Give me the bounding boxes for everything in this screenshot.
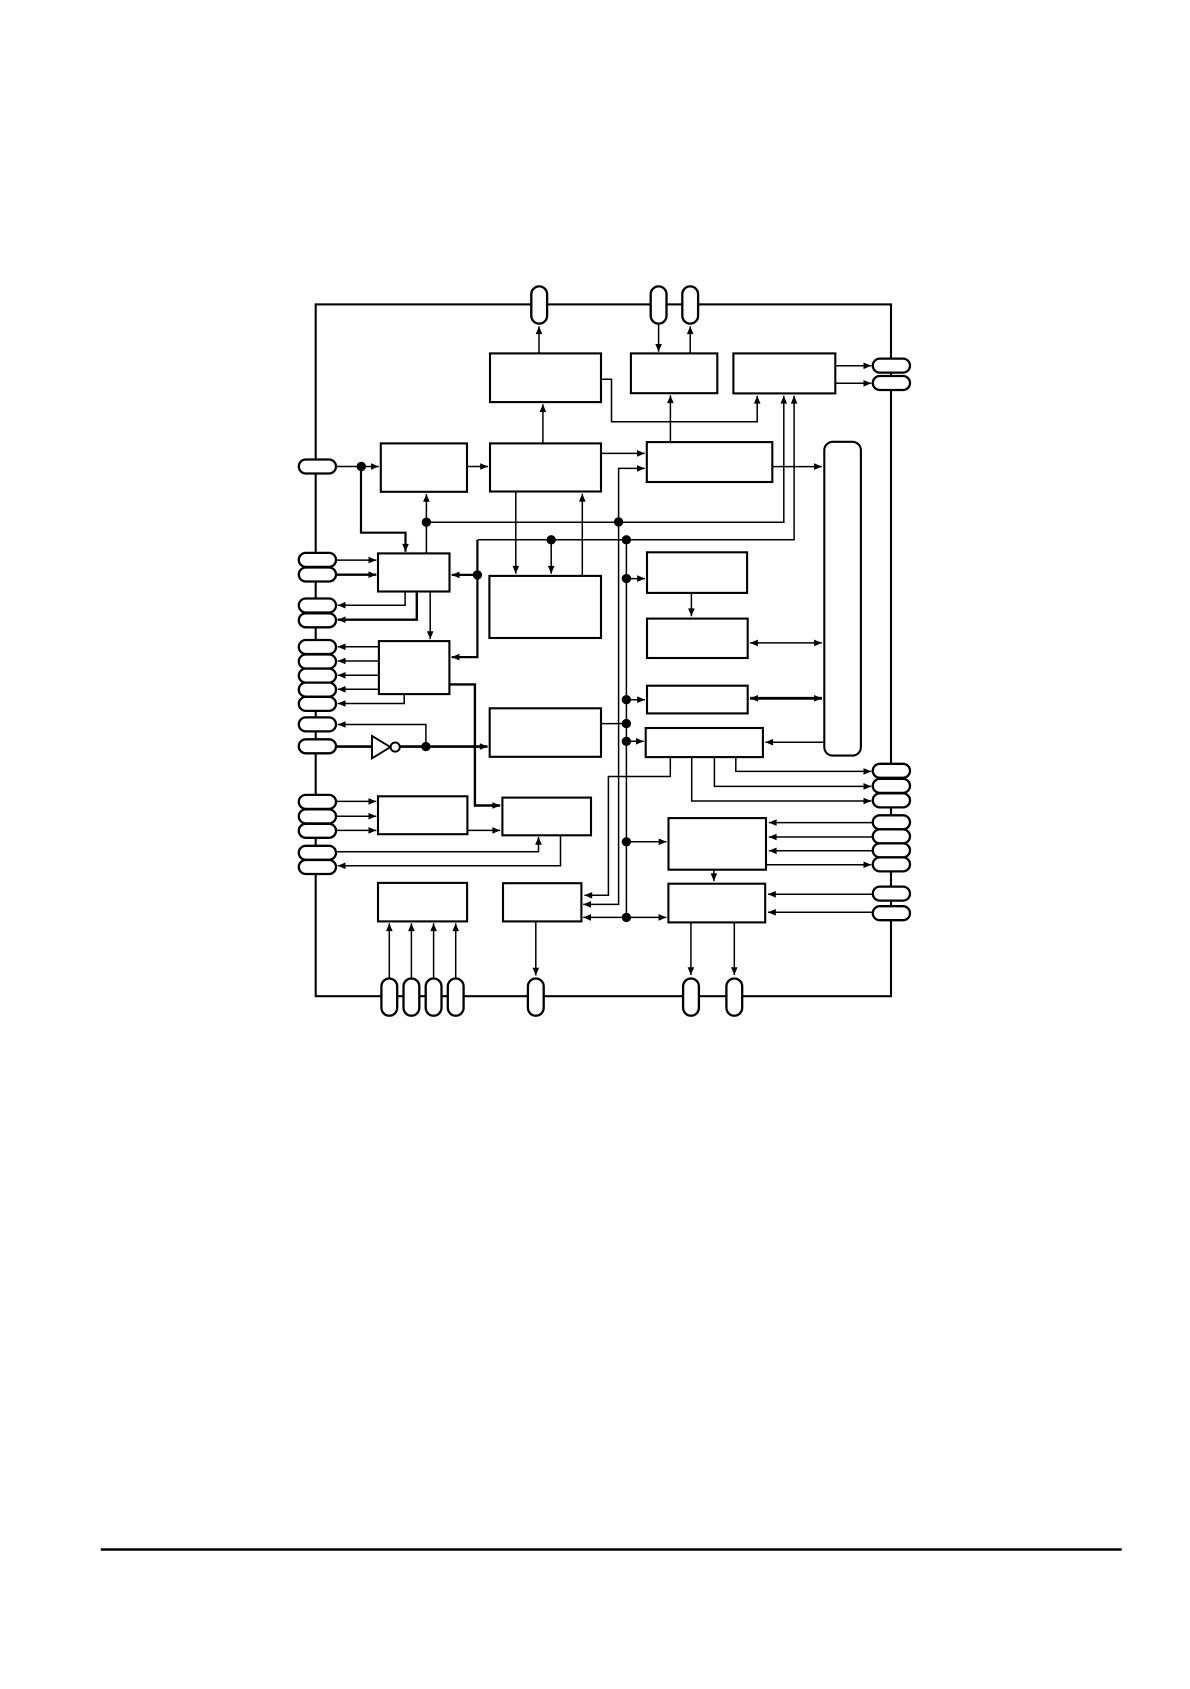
wire U13 clock out tap xyxy=(601,723,626,725)
wire pad to U18 b xyxy=(408,923,415,978)
wire footer rule xyxy=(101,1548,1122,1551)
wire net2 vertical to U6 and U19 xyxy=(583,465,645,908)
block U14 xyxy=(646,728,763,757)
pad L7 xyxy=(299,655,336,669)
wire U7 to U4 xyxy=(423,494,430,553)
pad L14 xyxy=(299,809,336,823)
wire pad to U20 a xyxy=(768,891,873,898)
block U4 xyxy=(381,443,467,491)
junction net3 h xyxy=(622,837,631,846)
wire U11 to U16 xyxy=(449,684,500,808)
junction net2 a xyxy=(422,518,431,527)
pad L9 xyxy=(299,683,336,697)
wire net3 branch to U17 xyxy=(626,839,666,846)
pad B7 xyxy=(726,979,742,1016)
pad L15 xyxy=(299,824,336,838)
wire inverter G1 to U13 xyxy=(400,743,488,750)
wire pad to U15 a xyxy=(336,798,376,805)
wire U5 to U1 xyxy=(540,404,547,443)
wire pad E to U4 xyxy=(336,463,379,470)
wire net3 branch to U14 xyxy=(626,738,643,745)
pad R10 xyxy=(873,887,910,901)
pad XOUT xyxy=(682,286,698,323)
wire U7 to U11 xyxy=(427,592,434,640)
wire U1 to pad CLKOUT xyxy=(536,326,543,353)
wire U11 to pad c xyxy=(338,672,379,679)
wire U11 to pad b xyxy=(338,658,379,665)
pad XIN xyxy=(651,286,667,323)
junction net3 f xyxy=(622,719,631,728)
pad L8 xyxy=(299,669,336,683)
block U9 xyxy=(647,552,747,593)
wire U1 out elbow to U3 xyxy=(601,379,761,422)
block U5 xyxy=(490,443,601,491)
pad B1 xyxy=(381,979,397,1016)
pad R8 xyxy=(873,843,910,857)
pad L10 xyxy=(299,697,336,711)
block U8 xyxy=(489,576,601,638)
wire pad to U20 b xyxy=(768,909,873,916)
pad R3 xyxy=(873,764,910,778)
wire net2 horizontal to U3 xyxy=(426,396,787,522)
wire U6 to bus xyxy=(772,463,822,470)
pad L5 xyxy=(299,613,336,627)
junction net3 g xyxy=(622,737,631,746)
junction net3 i xyxy=(622,913,631,922)
pad L13 xyxy=(299,795,336,809)
pad L4 xyxy=(299,599,336,613)
wire U11 to pad d xyxy=(338,686,379,693)
wire pad to U7 b xyxy=(336,571,376,578)
junction net2 b xyxy=(614,517,623,526)
block U6 xyxy=(647,442,773,482)
pad B6 xyxy=(683,979,699,1016)
junction net3 c xyxy=(473,570,482,579)
pad R9 xyxy=(873,857,910,871)
block U13 xyxy=(490,708,601,757)
wire net3 left branch to U11 xyxy=(452,540,478,661)
wire U14 to pad r3 xyxy=(692,757,872,804)
wire pad to U15 b xyxy=(336,813,376,820)
wire U12 bus bidir xyxy=(750,695,822,702)
wire pad to U7 a xyxy=(336,557,376,564)
block U17 xyxy=(669,818,767,870)
wire U15 to U16 xyxy=(467,827,500,834)
wire U3 to pad TXD xyxy=(835,380,871,387)
wire net3 branch to U9 xyxy=(626,575,645,582)
wire U11 to pad a xyxy=(338,644,379,651)
pad L12 xyxy=(299,739,336,753)
wire U2 to pad XOUT xyxy=(687,326,694,353)
wire U10 bus bidir xyxy=(750,640,822,647)
block U10 xyxy=(647,619,748,658)
pad B2 xyxy=(404,979,420,1016)
pad L2 xyxy=(299,553,336,567)
block U15 xyxy=(378,796,467,834)
wire U17 to U20 xyxy=(711,870,718,882)
pad L11 xyxy=(299,717,336,731)
pad R6 xyxy=(873,815,910,829)
wire U17 to pad xyxy=(766,862,871,869)
pad CLKOUT xyxy=(531,286,547,323)
junction net3 b xyxy=(622,535,631,544)
wire U19 to pad xyxy=(533,921,540,975)
wire U20 to pad b xyxy=(731,922,738,975)
wire net3 branch to U7 xyxy=(452,572,478,579)
wire U20 to pad a xyxy=(688,922,695,975)
wire pad to U15 c xyxy=(336,827,376,834)
pad E xyxy=(299,460,336,474)
pad B3 xyxy=(426,979,442,1016)
wire pad to inverter G1 xyxy=(336,745,373,748)
wire pad to U17 a xyxy=(769,819,873,826)
wire U6 to U2 xyxy=(667,395,674,442)
wire pad to U18 c xyxy=(430,923,437,978)
pad L17 xyxy=(299,860,336,874)
wire pad to U17 b xyxy=(769,834,873,841)
wire node E to U7 xyxy=(361,467,409,552)
wire net3 branch to U12 xyxy=(626,696,645,703)
junction net3 d xyxy=(622,574,631,583)
block U1 xyxy=(490,353,601,402)
junction net3 e xyxy=(622,695,631,704)
junction inverter out xyxy=(421,742,430,751)
wire pad to U18 d xyxy=(452,923,459,978)
block U18 xyxy=(378,883,467,922)
junction net3 a xyxy=(547,535,556,544)
block U2 xyxy=(631,353,717,393)
block U12 xyxy=(647,686,748,714)
wire U7 to pad a xyxy=(338,592,405,609)
wire pad to U17 c xyxy=(769,848,873,855)
bus BUS1 xyxy=(824,442,861,756)
wire U14 to U19 xyxy=(584,757,670,899)
pad R5 xyxy=(873,793,910,807)
wire bus to U14 xyxy=(765,739,824,746)
wire pad XIN to U2 xyxy=(655,324,662,352)
junction node E xyxy=(357,462,366,471)
pad R11 xyxy=(873,906,910,920)
wire U11 to pad e xyxy=(338,694,405,707)
pad R2 xyxy=(873,376,910,390)
pad R4 xyxy=(873,779,910,793)
wire pad to U16 bottom xyxy=(336,837,542,852)
wire U4 to U5 xyxy=(467,463,488,470)
pad L6 xyxy=(299,640,336,654)
wire U7 to pad b xyxy=(338,592,417,624)
wire U14 to pad r2 xyxy=(714,757,871,790)
block U16 xyxy=(502,798,591,836)
pad L16 xyxy=(299,846,336,860)
wire inverter out to pad xyxy=(338,721,426,746)
wire U8 to U5 xyxy=(579,494,586,576)
wire U9 to U10 xyxy=(688,593,695,616)
wire U5 to U8 xyxy=(513,492,520,574)
pad L3 xyxy=(299,568,336,582)
wire U16 to pad xyxy=(338,835,561,869)
wire U5 to U6 a xyxy=(601,450,645,457)
block U19 xyxy=(503,883,581,921)
inverter G1 xyxy=(372,736,400,758)
wire pad to U18 a xyxy=(386,923,393,978)
wire outer frame xyxy=(316,304,891,996)
block U3 xyxy=(733,353,835,393)
pad B4 xyxy=(448,979,464,1016)
pad R1 xyxy=(873,359,910,373)
wire net3 branch to U19 xyxy=(583,914,626,921)
block U7 xyxy=(378,553,450,591)
block U20 xyxy=(668,884,765,923)
wire net3 branch to U8 xyxy=(548,540,555,574)
pad R7 xyxy=(873,829,910,843)
wire U14 to pad r1 xyxy=(736,757,872,775)
pad B5 xyxy=(528,979,544,1016)
wire net3 branch to U20 xyxy=(626,914,666,921)
wire net3 long vertical xyxy=(625,540,627,918)
wire U3 to pad RXD xyxy=(835,363,871,370)
wire net3 horizontal to U3 xyxy=(478,396,798,540)
block U11 xyxy=(379,641,450,694)
